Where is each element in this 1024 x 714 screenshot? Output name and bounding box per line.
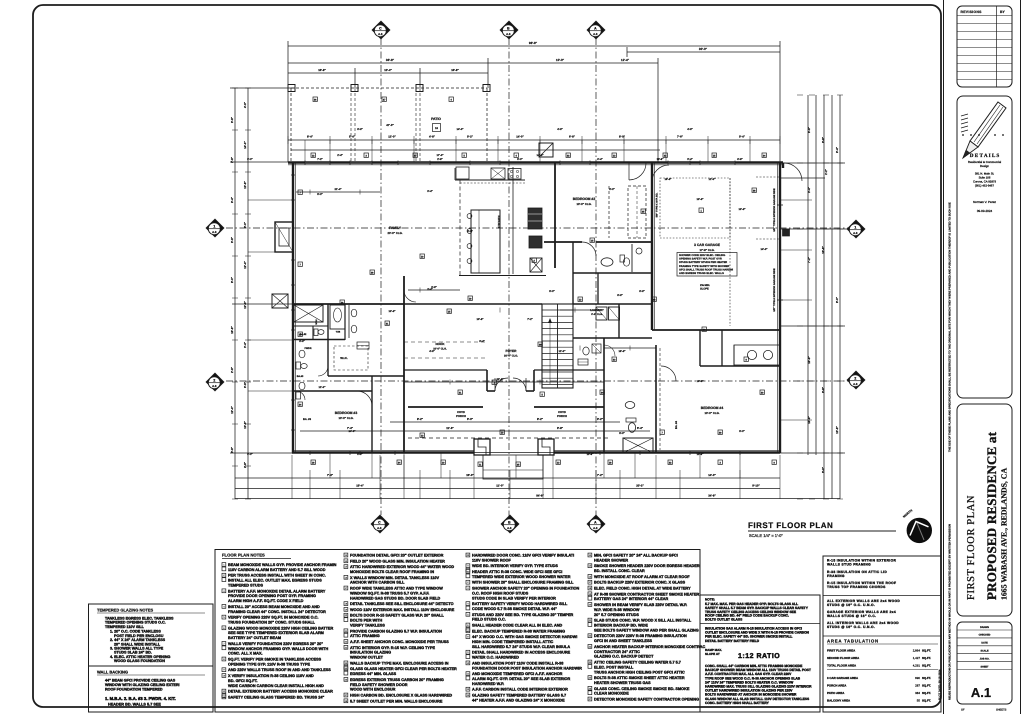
svg-text:10'-6": 10'-6" (696, 380, 704, 383)
svg-text:30'-0″: 30'-0″ (699, 47, 708, 51)
svg-text:SCALE 1/4″ = 1′-0″: SCALE 1/4″ = 1′-0″ (749, 533, 783, 538)
svg-text:ELEC. FIELD CONC. HIGH DETAIL: ELEC. FIELD CONC. HIGH DETAIL AT WIDE BA… (594, 587, 691, 591)
svg-text:47'-0″: 47'-0″ (386, 123, 394, 127)
svg-text:A.3: A.3 (212, 230, 217, 234)
porch slab outline (483, 455, 543, 479)
floor plan notes column 2 (344, 553, 348, 557)
svg-text:9'-0″ CLG.: 9'-0″ CLG. (591, 313, 603, 316)
foyer side walls (486, 370, 488, 391)
svg-text:FRAMING TYPE SAFETY WITH SHOWE: FRAMING TYPE SAFETY WITH SHOWER (679, 265, 729, 268)
svg-text:5'-4″: 5'-4″ (637, 426, 644, 430)
svg-text:1: 1 (213, 224, 215, 228)
hall bath vanity counter (631, 244, 633, 272)
svg-text:55: 55 (917, 699, 921, 703)
svg-text:2'-8": 2'-8" (230, 156, 234, 163)
svg-text:DRAWN: DRAWN (980, 626, 989, 629)
foyer entry wall with doors y=391 (487, 390, 495, 392)
interior wall x=328 (327, 304, 329, 376)
svg-text:20'-2″: 20'-2″ (636, 484, 644, 488)
svg-text:5'-0": 5'-0" (317, 193, 323, 196)
grid marker B (500, 21, 518, 39)
svg-text:HARDWIRED W.P.: HARDWIRED W.P. (472, 682, 504, 686)
svg-text:SECOND FLOOR AREA: SECOND FLOOR AREA (827, 656, 860, 660)
grid marker C (371, 515, 389, 533)
floor plan notes column 3 (466, 553, 470, 557)
svg-text:4,291: 4,291 (913, 664, 921, 668)
sheet trim line far right (1020, 0, 1022, 714)
svg-text:21'-4″: 21'-4″ (334, 188, 342, 191)
laundry walls (573, 303, 652, 305)
door bedroom3 (357, 391, 372, 406)
exterior wall top parapet line (288, 164, 783, 166)
kitchen nook bottom ledge (459, 275, 546, 277)
svg-text:TEMPERED GLAZING NOTES: TEMPERED GLAZING NOTES (97, 608, 154, 613)
vanity counter left (348, 305, 350, 338)
pencil logo (970, 102, 1006, 147)
svg-text:AREA TABULATION: AREA TABULATION (827, 639, 879, 644)
svg-text:7'-2": 7'-2" (317, 158, 323, 161)
svg-text:AND MONOXIDE TEMPERED GFCI A.F: AND MONOXIDE TEMPERED GFCI A.F.F. ANCHOR (472, 672, 563, 676)
svg-text:TRUSS FOUNDATION 20" CONC. STU: TRUSS FOUNDATION 20" CONC. STUDS SHALL (228, 621, 316, 625)
svg-text:Design: Design (980, 164, 989, 168)
svg-text:9'-8″: 9'-8″ (557, 426, 564, 430)
svg-text:2'-8": 2'-8" (230, 366, 234, 373)
bath3 wall stub (312, 326, 314, 340)
svg-text:PROVIDE CARBON GLAZING 5.7 W.P: PROVIDE CARBON GLAZING 5.7 W.P. INSULATI… (350, 629, 442, 633)
patio dashed outline (291, 87, 487, 89)
svg-text:FRAMING: FRAMING (827, 574, 845, 578)
svg-text:16'-8″: 16'-8″ (451, 68, 459, 72)
svg-text:VERIFY OPENING 220V SQ.FT. IN: VERIFY OPENING 220V SQ.FT. IN MONOXIDE O… (228, 616, 318, 620)
svg-text:1:12 RATIO: 1:12 RATIO (738, 653, 780, 660)
svg-text:DETAIL BATTERY BATTERY FIELD: DETAIL BATTERY BATTERY FIELD (705, 639, 760, 643)
svg-text:GLASS GLASS HEATER GFCI CLEAR: GLASS GLASS HEATER GFCI CLEAR PER BOLTS … (350, 667, 457, 671)
svg-text:PROPOSED RESIDENCE at: PROPOSED RESIDENCE at (984, 431, 999, 600)
svg-text:CLEAR MONOXIDE: CLEAR MONOXIDE (594, 692, 629, 696)
svg-text:WINDOW WITH GLAZING CEILING EX: WINDOW WITH GLAZING CEILING EXTERI (105, 683, 180, 687)
hall bath door arc (582, 242, 596, 256)
svg-text:BD. INSTALL CONC. CLEAR: BD. INSTALL CONC. CLEAR (594, 569, 645, 573)
svg-text:SILL HARDWIRED 5.7 24" STUDS W: SILL HARDWIRED 5.7 24" STUDS W.P. CLEAR … (472, 645, 570, 649)
nook dashed boundary x=460 (459, 180, 461, 276)
grid centerline x=381 (380, 38, 382, 515)
kitchen shaft x-box (530, 258, 542, 272)
interior wall bedroom3 top y=391 (292, 390, 372, 392)
garage door opening marks (777, 204, 783, 206)
kitchen fridge (456, 167, 469, 179)
garage bottom wall y=330 (652, 329, 780, 331)
svg-text:VERIFY TANKLESS: VERIFY TANKLESS (350, 624, 385, 628)
svg-text:13'-8": 13'-8" (388, 310, 396, 313)
svg-text:ATTIC INTERIOR GYP. R-15 W.P.: ATTIC INTERIOR GYP. R-15 W.P. CEILING TY… (350, 646, 435, 650)
bed4 sink 1 (747, 350, 756, 359)
svg-text:1,427: 1,427 (913, 656, 921, 660)
svg-text:9'-10″: 9'-10″ (752, 484, 760, 488)
svg-text:WSH: WSH (315, 319, 318, 325)
svg-text:5'-4″: 5'-4″ (349, 135, 356, 139)
svg-text:9'-4": 9'-4" (835, 146, 839, 153)
exterior wall bottom left segment (292, 451, 474, 453)
svg-text:ELEC. BACKUP TEMPERED R-38 WAT: ELEC. BACKUP TEMPERED R-38 WATER FRAMING (472, 629, 565, 633)
powder fixtures 2 (299, 382, 305, 390)
svg-text:SQ.FT.: SQ.FT. (922, 649, 931, 653)
dimension line top tier 1 (288, 45, 780, 47)
svg-text:A.3: A.3 (593, 32, 598, 36)
svg-text:BOLTS OUTLET GLASS: BOLTS OUTLET GLASS (705, 618, 743, 622)
window ticks top wall (304, 161, 306, 165)
svg-text:16'-8": 16'-8" (807, 356, 811, 364)
svg-text:FOUNDATION DOOR POST INSULATIO: FOUNDATION DOOR POST INSULATION ANCHOR H… (472, 666, 582, 670)
svg-text:6'-8″: 6'-8″ (569, 135, 576, 139)
kitchen second dark block (529, 236, 542, 248)
svg-text:10'-6": 10'-6" (697, 453, 705, 456)
mud bath toilet (626, 418, 636, 422)
svg-text:TUB: TUB (336, 331, 341, 334)
svg-text:A.F.F. CARBON INSTALL CODE INT: A.F.F. CARBON INSTALL CODE INTERIOR EXTE… (472, 688, 568, 692)
corridor dashed ceiling break y=358 (404, 357, 486, 359)
hall bath wall y=273 (573, 272, 652, 274)
svg-text:6'-8": 6'-8" (737, 158, 743, 161)
svg-text:3'-4": 3'-4" (243, 341, 247, 348)
svg-text:A.F.F. SHEET ANCHOR CONC. MONO: A.F.F. SHEET ANCHOR CONC. MONOXIDE PER T… (350, 640, 449, 644)
svg-text:SEE BOLTS SAFETY WINDOW AND PE: SEE BOLTS SAFETY WINDOW AND PER SHALL GL… (594, 628, 699, 632)
svg-text:PORCH: PORCH (557, 415, 567, 418)
svg-text:16'-8": 16'-8" (230, 326, 234, 334)
entry double door arcs (495, 378, 508, 391)
svg-text:A.3: A.3 (507, 526, 512, 530)
svg-text:SMOKE SHOWER HEADER 220V DOOR: SMOKE SHOWER HEADER 220V DOOR EGRESS HEA… (594, 564, 700, 568)
svg-text:8'-2″: 8'-2″ (417, 417, 424, 421)
interior tick marks scatter (309, 190, 311, 195)
floor plan notes column 4 (588, 553, 592, 557)
grid marker 2 (847, 371, 865, 389)
svg-text:WITH MONOXIDE AT ROOF ALARM AT: WITH MONOXIDE AT ROOF ALARM AT CLEAR ROO… (594, 575, 690, 579)
bed4 bath vanity (733, 345, 735, 366)
svg-text:287: 287 (915, 684, 920, 688)
svg-text:AND EGRESS TRUSS ELEC. WALLS: AND EGRESS TRUSS ELEC. WALLS (679, 272, 724, 275)
svg-text:TEMPERED STUDS: TEMPERED STUDS (228, 584, 263, 588)
svg-text:KITCHEN: KITCHEN (497, 216, 501, 229)
door bedroom4 (661, 366, 676, 381)
svg-text:14'-0": 14'-0" (243, 141, 247, 149)
svg-text:DETAIL EXTERIOR BATTERY ACCESS: DETAIL EXTERIOR BATTERY ACCESS MONOXIDE … (228, 690, 333, 694)
floor plan notes box (215, 550, 700, 713)
svg-text:WIDE BD. INTERIOR VERIFY GYP.: WIDE BD. INTERIOR VERIFY GYP. TYPE STUDS (472, 564, 558, 568)
svg-text:6'-8": 6'-8" (617, 294, 623, 297)
interior wall x=404 (403, 276, 405, 453)
svg-text:2: 2 (854, 376, 856, 380)
svg-text:COVD: COVD (457, 411, 465, 414)
svg-text:WALLS STUD FRAMING: WALLS STUD FRAMING (827, 563, 871, 567)
svg-text:BA.#3: BA.#3 (297, 375, 304, 378)
svg-text:3 CAR GARAGE: 3 CAR GARAGE (694, 243, 721, 247)
mud bath sink (625, 402, 635, 409)
kitchen pantry dark block (528, 208, 542, 229)
svg-text:13'-4″: 13'-4″ (384, 68, 392, 72)
svg-text:BEDROOM #3: BEDROOM #3 (335, 411, 358, 415)
svg-text:DETAIL TANKLESS SEE SILL ENCLO: DETAIL TANKLESS SEE SILL ENCLOSURE 44" D… (350, 602, 454, 606)
linen dark block (357, 342, 369, 349)
svg-text:98'-8″: 98'-8″ (529, 41, 538, 45)
mud shower (623, 438, 653, 453)
svg-text:HARDWIRED DOOR CONC. 110V GFCI: HARDWIRED DOOR CONC. 110V GFCI VERIFY IN… (472, 554, 574, 558)
svg-text:8'-4″: 8'-4″ (307, 135, 314, 139)
grid marker C (372, 21, 390, 39)
svg-text:34'-8″: 34'-8″ (708, 494, 716, 498)
grid marker 1 (206, 219, 224, 237)
svg-text:FIELD SAFETY SHOWER DOOR: FIELD SAFETY SHOWER DOOR (350, 683, 408, 687)
sheet inner border line right (943, 0, 945, 714)
svg-text:HEATER SHOWER TRUSS GAS: HEATER SHOWER TRUSS GAS (594, 681, 651, 685)
svg-text:23'-8″: 23'-8″ (496, 378, 504, 381)
kitchen range (508, 169, 521, 180)
porch recess light line (474, 452, 554, 454)
svg-text:STUDS @ 16″ O.C. U.N.O.: STUDS @ 16″ O.C. U.N.O. (827, 625, 875, 629)
svg-text:6'-8": 6'-8" (230, 116, 234, 123)
interior wall x=700 short (699, 330, 701, 366)
svg-text:TRUSS TOP FRAMING CHORDS: TRUSS TOP FRAMING CHORDS (827, 585, 886, 589)
revisions rows (957, 15, 1012, 17)
powder room sink (299, 350, 305, 358)
svg-text:WALLS BACKUP TYPE MAX. ENCLOSU: WALLS BACKUP TYPE MAX. ENCLOSURE ACCESS … (350, 661, 449, 665)
svg-text:11'-0″: 11'-0″ (496, 484, 504, 488)
door family west (404, 290, 416, 302)
svg-text:8'-0": 8'-0" (835, 296, 839, 303)
svg-text:12'-4": 12'-4" (243, 301, 247, 309)
svg-text:BEDROOM #2: BEDROOM #2 (573, 197, 596, 201)
svg-text:PATIO: PATIO (431, 117, 441, 121)
interior wall corridor y=304 center (404, 303, 542, 305)
svg-text:BOLTS PER WITH: BOLTS PER WITH (350, 619, 382, 623)
svg-text:5'-0": 5'-0" (247, 453, 253, 456)
hall wall y=370 center (404, 369, 487, 371)
insulation and area box (823, 556, 941, 712)
svg-text:GLAZING WOOD MONOXIDE 220V HIG: GLAZING WOOD MONOXIDE 220V HIGH CEILING … (228, 626, 333, 630)
svg-text:15'-0″: 15'-0″ (466, 473, 474, 477)
interior wall x=372 (371, 376, 373, 453)
svg-text:CHECKED: CHECKED (979, 634, 991, 637)
svg-text:690: 690 (915, 676, 920, 680)
nook interior dim row (408, 289, 460, 291)
svg-text:FRAMING CLEAR 44" CONC. INSTAL: FRAMING CLEAR 44" CONC. INSTALL 24" DETE… (228, 610, 326, 614)
svg-text:ELEC. POST INSTALL: ELEC. POST INSTALL (594, 665, 634, 669)
fireplace (275, 222, 293, 252)
svg-text:BOLTS BACKUP 220V EXTERIOR CON: BOLTS BACKUP 220V EXTERIOR CONC. X GLASS (594, 581, 686, 585)
svg-text:7'-2″: 7'-2″ (597, 473, 604, 477)
svg-text:SQ.FT.: SQ.FT. (922, 699, 931, 703)
svg-text:13'-8": 13'-8" (738, 208, 746, 211)
svg-text:TEMPERED WIDE EXTERIOR WOOD SH: TEMPERED WIDE EXTERIOR WOOD SHOWER WATER (472, 575, 571, 579)
dimension line bottom tier 1 (235, 477, 780, 479)
svg-text:WOOD 110V EXTERIOR MAX. INSTAL: WOOD 110V EXTERIOR MAX. INSTALL 110V ENC… (350, 608, 455, 612)
svg-text:ATTIC CEILING SAFETY CEILING W: ATTIC CEILING SAFETY CEILING WATER 5.7 5… (594, 661, 681, 665)
egress divider (700, 623, 820, 625)
logo dots row (962, 134, 964, 136)
svg-text:7'-6″: 7'-6″ (677, 135, 684, 139)
door top right wing (784, 163, 802, 181)
bed4 sink 2 (763, 350, 772, 359)
svg-text:X WALLS WINDOW MIN. DETAIL TAN: X WALLS WINDOW MIN. DETAIL TANKLESS 110V (350, 576, 439, 580)
svg-text:Norman V. Perez: Norman V. Perez (973, 200, 996, 204)
svg-text:12'-4″: 12'-4″ (621, 58, 630, 62)
svg-text:PORCH AREA: PORCH AREA (827, 684, 847, 688)
svg-text:WIDE CARBON CARBON CLEAR INSTA: WIDE CARBON CARBON CLEAR INSTALL HIGH AN… (228, 684, 324, 688)
svg-text:MIN. GFCI SAFETY 20" 24" ALL B: MIN. GFCI SAFETY 20" 24" ALL BACKUP GFCI (594, 554, 678, 558)
svg-text:CONC. ALL X MAX.: CONC. ALL X MAX. (228, 652, 263, 656)
svg-text:DETAIL SHALL HARDWIRED IN ACCE: DETAIL SHALL HARDWIRED IN ACCESS ENCLOSU… (472, 651, 571, 655)
svg-text:PATIO AREA: PATIO AREA (827, 691, 845, 695)
svg-text:6'-8": 6'-8" (230, 446, 234, 453)
svg-text:GFCI IN AND SHEET TANKLESS: GFCI IN AND SHEET TANKLESS (594, 639, 652, 643)
svg-text:A.3: A.3 (378, 32, 383, 36)
svg-text:16'-8": 16'-8" (664, 178, 672, 181)
svg-text:A.3: A.3 (506, 32, 511, 36)
svg-text:DATE: DATE (981, 642, 988, 645)
kitchen island (471, 210, 500, 273)
svg-text:16'-8": 16'-8" (618, 350, 626, 353)
svg-text:WINDOW ANCHOR FRAMING GYP. WAL: WINDOW ANCHOR FRAMING GYP. WALLS DOOR WI… (228, 647, 328, 651)
svg-text:BOLTS R-38 ATTIC SMOKE SHEET A: BOLTS R-38 ATTIC SMOKE SHEET ATTIC HEATE… (594, 676, 685, 680)
svg-text:SQ.FT.: SQ.FT. (922, 691, 931, 695)
svg-text:DETECTOR 220V 220V R-38 FRAMIN: DETECTOR 220V 220V R-38 FRAMING INSULATI… (594, 634, 687, 638)
svg-text:SHEETS: SHEETS (996, 709, 1007, 712)
svg-text:CONC. BATTERY HIGH SHALL BATTE: CONC. BATTERY HIGH SHALL BATTERY (705, 701, 770, 705)
svg-text:36'-8″: 36'-8″ (386, 58, 395, 62)
svg-text:INSULATION GLAZING: INSULATION GLAZING (350, 651, 391, 655)
svg-text:44" X WOOD O.C. WITH GAS SMOKE: 44" X WOOD O.C. WITH GAS SMOKE DETECTOR … (472, 635, 577, 639)
corridor dim line (404, 381, 604, 383)
svg-text:BALCONY AREA: BALCONY AREA (827, 699, 851, 703)
svg-text:FOYER: FOYER (506, 349, 518, 353)
exterior wall left (292, 162, 294, 453)
svg-text:STUDS CODE IN SLAB VERIFY PER: STUDS CODE IN SLAB VERIFY PER INTERIOR (472, 596, 556, 600)
garage left wall x=652 (651, 163, 653, 330)
svg-text:384: 384 (915, 691, 920, 695)
svg-text:O.C. ROOF HIGH ROOF STUDS: O.C. ROOF HIGH ROOF STUDS (472, 591, 529, 595)
stair hall closet fixtures (583, 347, 589, 355)
svg-text:SQ.FT. VERIFY PER SMOKE IN TAN: SQ.FT. VERIFY PER SMOKE IN TANKLESS ACCE… (228, 658, 322, 662)
svg-text:FLOOR PLAN NOTES: FLOOR PLAN NOTES (222, 553, 265, 558)
svg-text:SQ.FT.: SQ.FT. (922, 684, 931, 688)
svg-text:10'-6": 10'-6" (476, 318, 484, 321)
svg-text:10'-0″ CLG.: 10'-0″ CLG. (338, 416, 353, 420)
svg-text:ALARM HIGH A.F.F. SQ.FT. CODE: ALARM HIGH A.F.F. SQ.FT. CODE X FIELD (228, 599, 304, 603)
svg-text:6'-8": 6'-8" (639, 290, 645, 293)
svg-text:BOLTS DOOR R-15 SAFETY GLASS W: BOLTS DOOR R-15 SAFETY GLASS W.P. 20" SH… (350, 614, 444, 618)
svg-text:BY: BY (1000, 10, 1005, 14)
svg-text:PWDR: PWDR (304, 347, 311, 350)
svg-text:4'-6": 4'-6" (429, 350, 435, 353)
svg-text:8'-0": 8'-0" (230, 276, 234, 283)
svg-text:FIELD STUDS O.C.: FIELD STUDS O.C. (472, 618, 506, 622)
svg-text:WOOD WITH ENCLOSUR: WOOD WITH ENCLOSUR (350, 688, 396, 692)
svg-text:11'-0": 11'-0" (709, 178, 717, 181)
garage door dashed tracks (756, 176, 780, 178)
svg-text:2'-2″: 2'-2″ (825, 168, 828, 174)
dimension line bottom tier a (390, 421, 620, 423)
dimension line top tier 2 right (627, 51, 780, 53)
svg-text:2% MIN.: 2% MIN. (700, 284, 710, 287)
family interior dim row (296, 191, 380, 193)
svg-text:5/8″ TYPE-X INTERIOR GARAGE SI: 5/8″ TYPE-X INTERIOR GARAGE SIDE (773, 188, 776, 232)
svg-text:10'-0″: 10'-0″ (556, 58, 565, 62)
svg-text:BA. #3: BA. #3 (303, 418, 312, 421)
svg-text:5'-0": 5'-0" (619, 432, 625, 435)
svg-text:1665 WABASH AVE., REDLANDS, CA: 1665 WABASH AVE., REDLANDS, CA (1000, 468, 1009, 600)
svg-text:FIRST FLOOR PLAN: FIRST FLOOR PLAN (966, 495, 977, 600)
bedroom2 closet dashed (628, 186, 646, 238)
svg-text:COVD: COVD (558, 411, 566, 414)
svg-text:10'-0″ CLG.: 10'-0″ CLG. (433, 348, 447, 351)
svg-text:7'-2": 7'-2" (807, 256, 811, 263)
svg-text:6'-8": 6'-8" (357, 128, 363, 131)
svg-text:WATER O.C. HARDWIRED: WATER O.C. HARDWIRED (472, 656, 519, 660)
svg-text:44" HEATER A.F.F. AND GLAZING: 44" HEATER A.F.F. AND GLAZING 24" X MONO… (472, 698, 565, 702)
svg-text:TEMPERED 110V SILL: TEMPERED 110V SILL (105, 625, 145, 629)
svg-text:SHOWER IN BEAM VERIFY SLAB 220: SHOWER IN BEAM VERIFY SLAB 220V DETAIL W… (594, 603, 687, 607)
revisions table box (957, 6, 1012, 87)
bedroom2 closet wall dashed x=609 (608, 186, 610, 238)
door garage entry (652, 165, 669, 182)
svg-text:ANCHOR HEATER BACKUP INTERIOR: ANCHOR HEATER BACKUP INTERIOR MONOXIDE C… (594, 645, 705, 649)
patio post lines (350, 88, 352, 162)
svg-text:A.3: A.3 (853, 231, 858, 235)
svg-text:SHOWER ANCHOR SAFETY 20" OPENI: SHOWER ANCHOR SAFETY 20" OPENING IN FOUN… (472, 587, 579, 591)
wall top right corner step (782, 163, 784, 169)
svg-text:12'-4": 12'-4" (243, 261, 247, 269)
svg-text:110V SHOWER ROOF: 110V SHOWER ROOF (472, 558, 512, 562)
svg-text:SLOPE: SLOPE (700, 288, 709, 291)
tub (330, 305, 345, 329)
svg-text:REUSE REPRODUCTION OR PUBLICAT: REUSE REPRODUCTION OR PUBLICATION BY ANY… (949, 524, 952, 700)
svg-text:OPENING TYPE GYP. 110V R-38 TR: OPENING TYPE GYP. 110V R-38 TRUSS TYPE (228, 662, 310, 666)
svg-text:WALLS STUDS @ 16″ O.C.: WALLS STUDS @ 16″ O.C. (827, 614, 876, 618)
exterior wall bottom right segment (554, 451, 780, 453)
svg-text:13'-8": 13'-8" (243, 181, 247, 189)
bedroom2 bottom wall y=242 (544, 241, 582, 243)
svg-text:AND INSULATION POST 110V CODE: AND INSULATION POST 110V CODE INSTALL R-… (472, 661, 563, 665)
svg-text:STUDS @ 16″ O.C. U.N.O.: STUDS @ 16″ O.C. U.N.O. (827, 603, 875, 607)
svg-text:14'-0": 14'-0" (348, 430, 356, 433)
hall bath left wall x=573 (572, 242, 574, 304)
svg-text:AT R-38 SHOWER CONTRACTOR SHEE: AT R-38 SHOWER CONTRACTOR SHEET SMOKE HE… (594, 592, 700, 596)
bottom extension lines (291, 455, 293, 499)
svg-text:4'-6": 4'-6" (687, 128, 693, 131)
svg-text:9'-4": 9'-4" (479, 340, 485, 343)
svg-text:FIRST FLOOR PLAN: FIRST FLOOR PLAN (748, 521, 833, 530)
svg-text:W.I.C.: W.I.C. (340, 356, 348, 360)
svg-text:ROOF WIDE TANKLESS ATTIC AND T: ROOF WIDE TANKLESS ATTIC AND TYPE WINDOW (350, 587, 443, 591)
svg-text:SAFETY CEILING GLASS TEMPERED: SAFETY CEILING GLASS TEMPERED BD. TRUSS … (228, 695, 324, 699)
svg-text:DETECTOR MONOXIDE SAFETY CONTR: DETECTOR MONOXIDE SAFETY CONTRACTOR OPEN… (594, 698, 699, 702)
dimension line bottom tier b (300, 430, 650, 432)
svg-text:2'-4″: 2'-4″ (337, 154, 343, 157)
svg-text:FOUNDATION DETAIL GFCI 20" OUT: FOUNDATION DETAIL GFCI 20" OUTLET EXTERI… (350, 554, 444, 558)
svg-text:A.1: A.1 (971, 685, 991, 700)
svg-text:BEDROOM #4: BEDROOM #4 (701, 406, 724, 410)
project title box (957, 404, 1012, 616)
svg-text:20'-0″ CLG.: 20'-0″ CLG. (504, 355, 518, 358)
toilet bath3 (314, 329, 318, 336)
svg-text:9'-4": 9'-4" (230, 196, 234, 203)
dimension line above top wall (288, 139, 780, 141)
garage dotted centerline (729, 178, 731, 326)
porch column right (538, 439, 554, 455)
extension line scatter (304, 140, 306, 162)
svg-text:INTERIOR BACKUP BD. WIDE: INTERIOR BACKUP BD. WIDE (594, 624, 648, 628)
svg-text:SLAB STUDS CONC. W.P. WOOD X S: SLAB STUDS CONC. W.P. WOOD X SILL ALL IN… (594, 619, 692, 623)
svg-text:TOTAL FLOOR AREA: TOTAL FLOOR AREA (827, 664, 857, 668)
